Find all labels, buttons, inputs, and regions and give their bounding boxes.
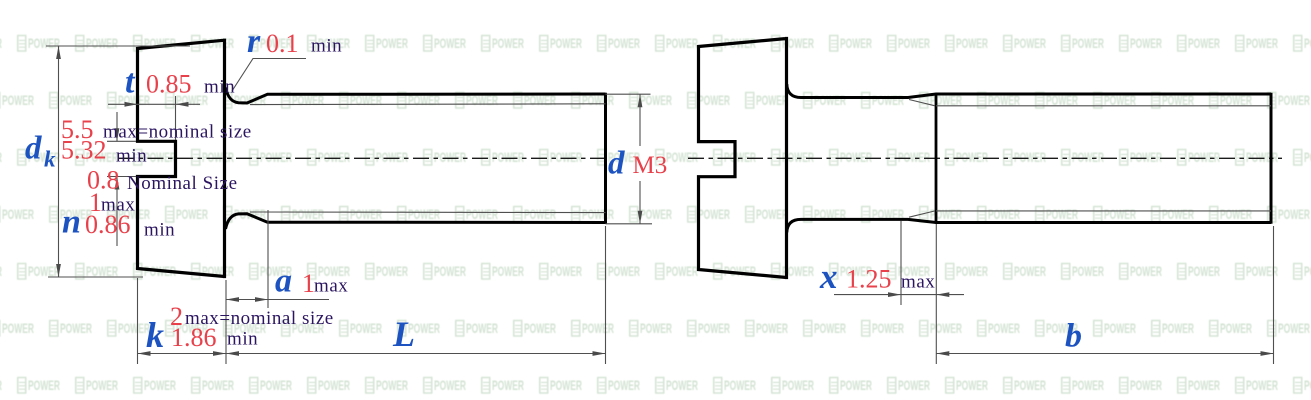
svg-text:max: max [314, 276, 348, 297]
n dimension line lower segment [116, 177, 118, 247]
L dimension line with arrows [226, 353, 606, 355]
svg-text:1.86: 1.86 [171, 323, 217, 352]
k dimension line with arrows [138, 353, 227, 355]
n dimension line upper segment [116, 112, 118, 141]
shank top edge with under-head fillet, left view [226, 88, 606, 104]
svg-text:b: b [1065, 318, 1082, 355]
t extension line right [175, 96, 177, 140]
thread root line top, left view [250, 103, 606, 106]
thread start boundary line [935, 93, 938, 224]
shank bottom edge with under-head fillet, left view [226, 214, 606, 229]
shank top edge right view: fillet, plain shank, runout, thread major [787, 84, 1271, 98]
shared extension line at head face (a,k,L) [225, 280, 227, 364]
thread runout slant bottom [909, 211, 935, 217]
svg-text:k: k [146, 315, 164, 355]
svg-text:a: a [275, 263, 292, 300]
head outline left view with slot notch [138, 39, 225, 279]
r leader line to fillet [232, 59, 306, 92]
svg-text:max=nominal size: max=nominal size [103, 122, 252, 143]
svg-text:min: min [204, 77, 235, 98]
head outline right view with slot notch [699, 37, 787, 279]
thread runout slant top [909, 100, 935, 106]
svg-text:d: d [608, 146, 625, 182]
svg-text:5.32: 5.32 [61, 136, 107, 165]
svg-text:x: x [819, 257, 838, 296]
screw right end [1270, 93, 1273, 224]
svg-text:min: min [311, 36, 342, 57]
centerline left view [118, 157, 608, 159]
dk extension line bottom [48, 276, 143, 278]
svg-text:n: n [62, 204, 81, 241]
thread root line top right view [936, 105, 1271, 107]
svg-text:M3: M3 [633, 152, 668, 179]
svg-text:max: max [901, 272, 935, 293]
t dimension line with arrows [108, 103, 200, 105]
svg-text:r: r [247, 23, 261, 60]
svg-text:Nominal Size: Nominal Size [127, 173, 238, 194]
svg-text:d: d [25, 131, 42, 167]
thread root line bottom, left view [250, 211, 606, 214]
a extension line [267, 210, 269, 308]
a dimension line with arrows [226, 299, 329, 301]
x extension lines [900, 221, 902, 305]
shank bottom edge right view [787, 219, 1271, 232]
svg-text:k: k [44, 147, 56, 172]
centerline right view [688, 157, 1282, 159]
d extension lines right of shank [606, 93, 651, 95]
dk dimension line with arrows [58, 46, 60, 277]
svg-text:1.25: 1.25 [846, 265, 892, 294]
x dimension line with outside arrows [834, 294, 964, 296]
shank right end, left view [604, 93, 607, 224]
b dimension line with arrows [936, 353, 1273, 355]
n extension lines from slot corners [107, 140, 136, 142]
svg-text:t: t [125, 64, 136, 101]
k extension line left [137, 278, 139, 364]
svg-text:min: min [144, 220, 175, 241]
L extension line right [605, 226, 607, 364]
dk extension line top [46, 45, 190, 47]
svg-text:min: min [227, 329, 258, 350]
d dimension line with arrows [639, 94, 641, 146]
b extension line right [1273, 226, 1275, 364]
thread root line bottom right view [936, 210, 1271, 212]
svg-text:min: min [116, 146, 147, 167]
svg-text:0.85: 0.85 [146, 70, 192, 99]
svg-text:0.1: 0.1 [266, 29, 299, 58]
svg-text:0.86: 0.86 [85, 210, 131, 239]
svg-text:L: L [392, 314, 415, 354]
